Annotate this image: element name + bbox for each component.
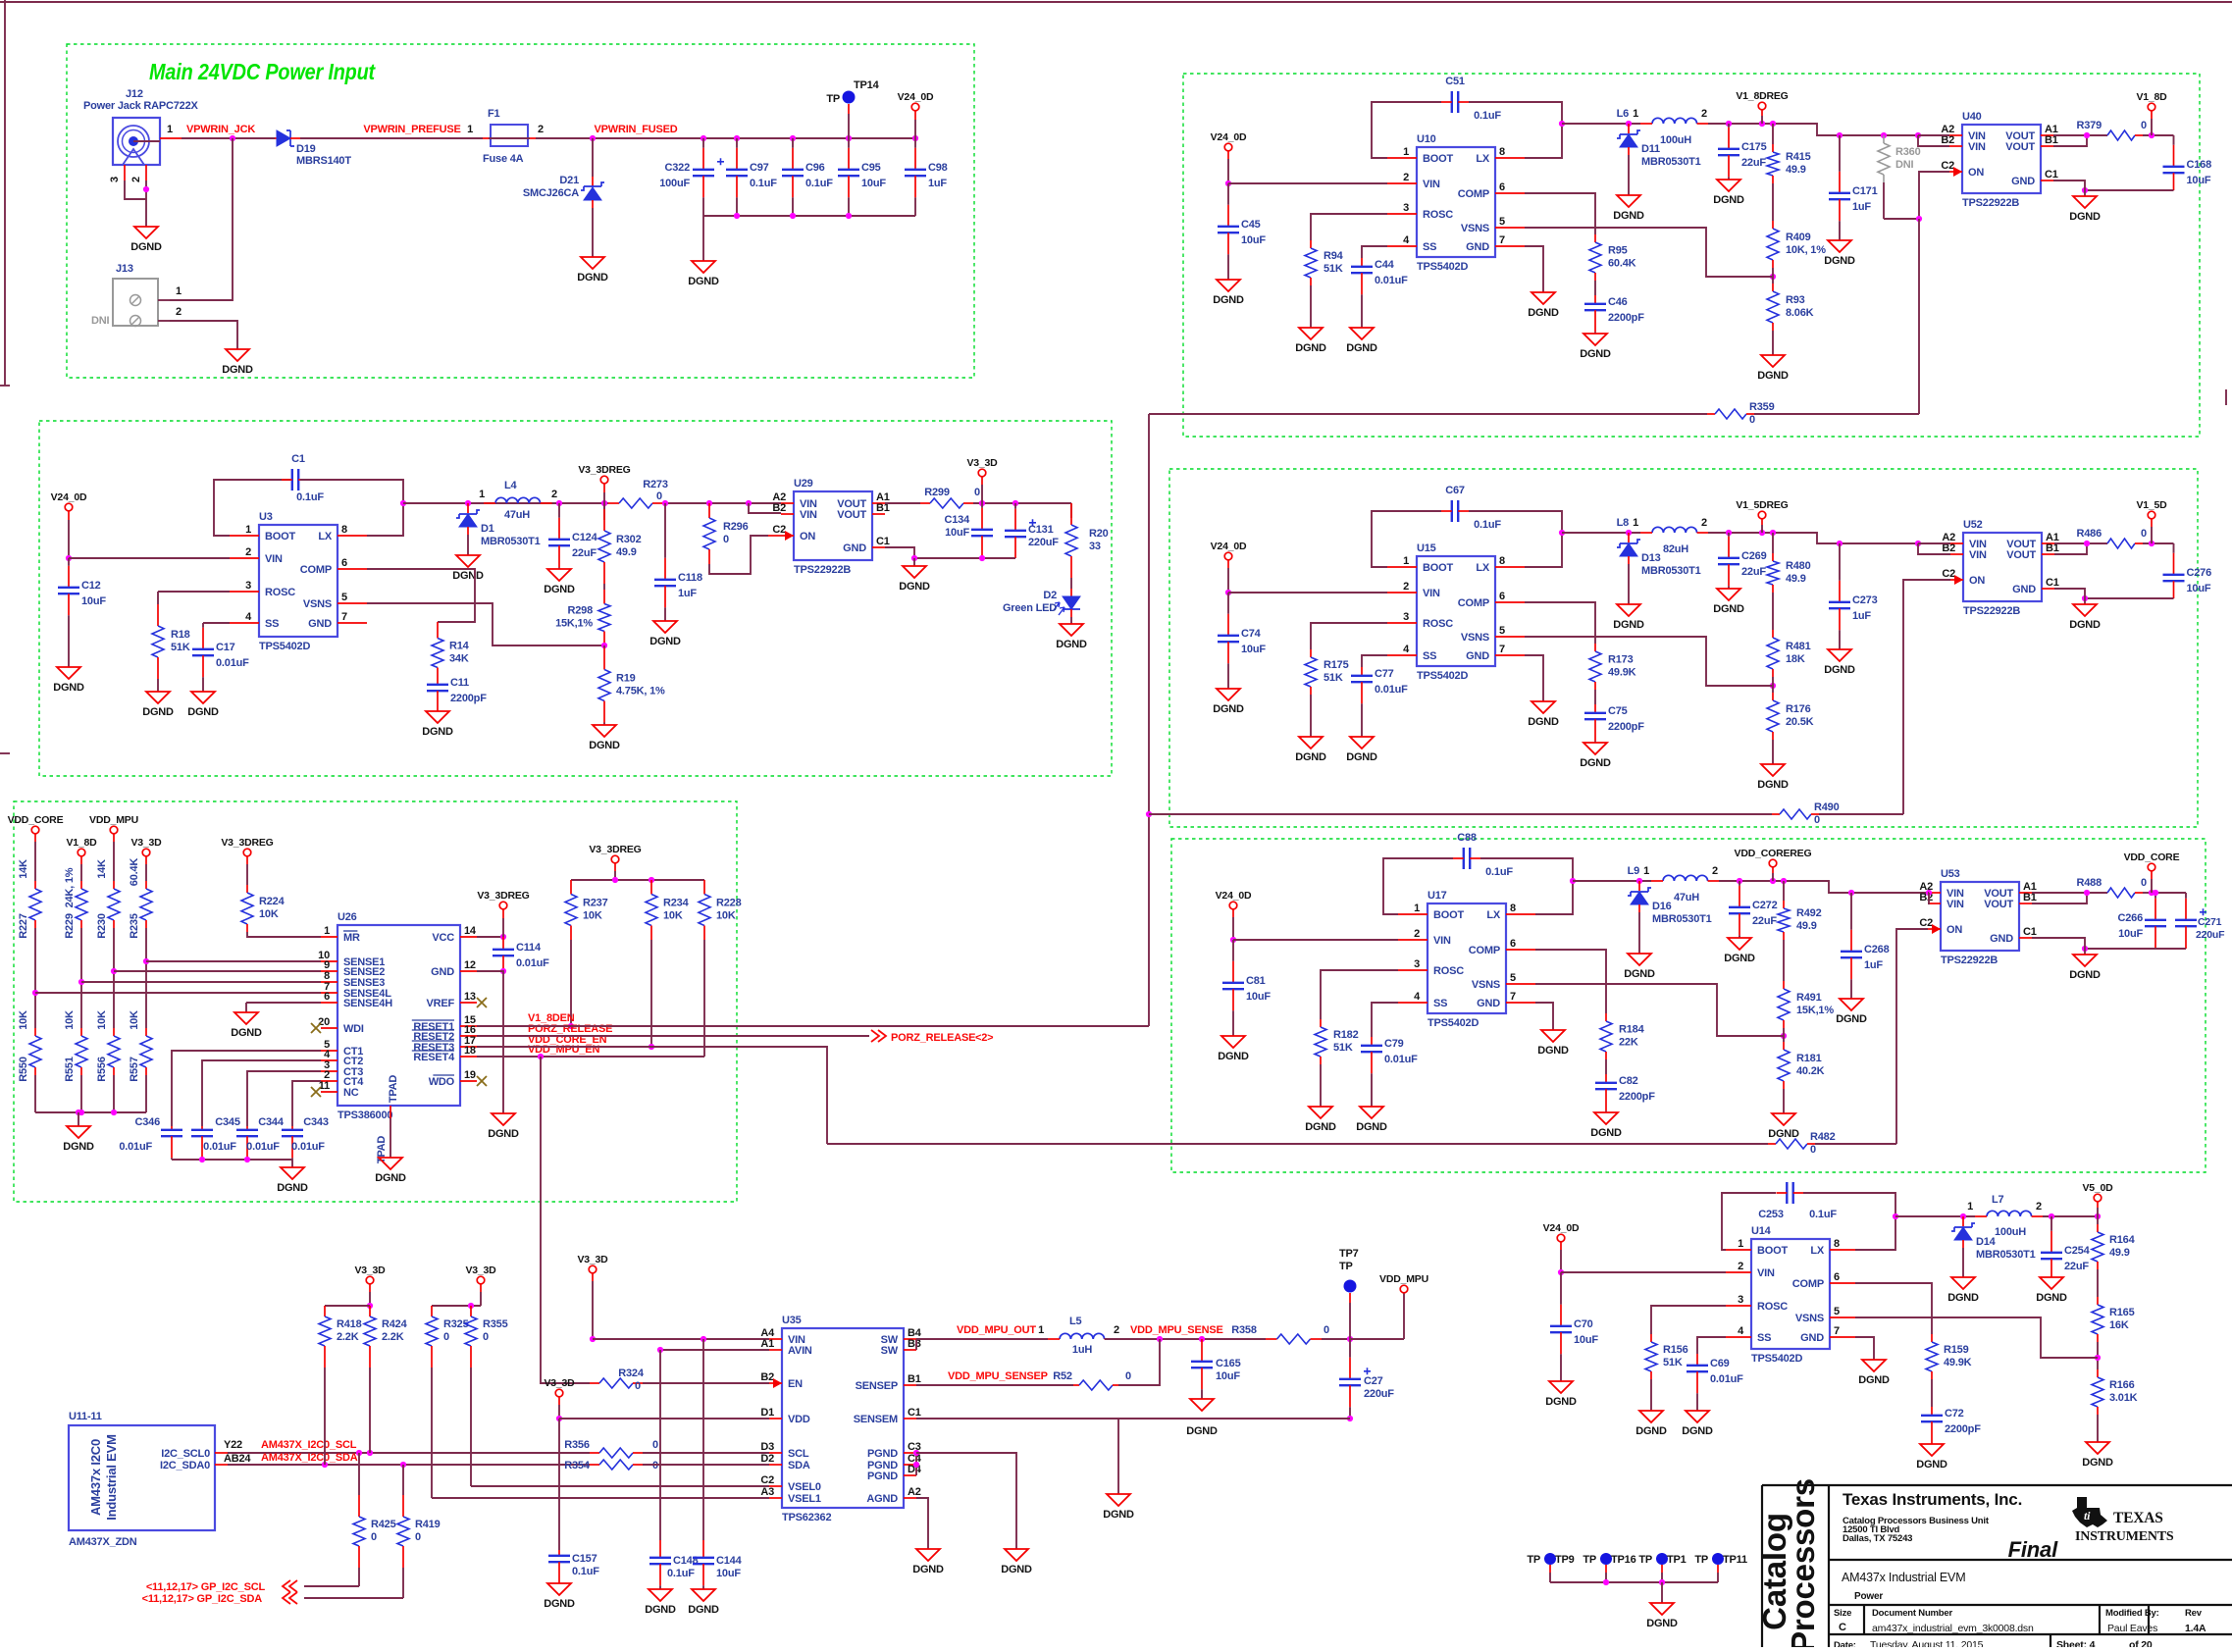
svg-text:TPS5402D: TPS5402D — [1751, 1353, 1802, 1365]
svg-text:DNI: DNI — [1895, 159, 1913, 171]
wire SENSE4L — [35, 992, 321, 994]
pin B2 VIN of U53 — [1928, 903, 1941, 904]
junction — [111, 1110, 117, 1115]
svg-text:V1_5DREG: V1_5DREG — [1736, 499, 1788, 511]
wire VSEL0 from R355 — [471, 1485, 769, 1487]
svg-text:0.01uF: 0.01uF — [516, 957, 549, 969]
wire filter rail — [703, 137, 915, 139]
pin 3 ROSC of U10 — [1387, 213, 1417, 215]
svg-text:R166: R166 — [2109, 1379, 2135, 1391]
ground — [916, 1549, 940, 1561]
wire pull-up rail — [571, 879, 704, 881]
svg-text:C1: C1 — [876, 536, 890, 547]
pin 2 of J13 — [158, 320, 170, 322]
svg-text:COMP: COMP — [1469, 945, 1500, 956]
wire BOOT loop U14 — [1722, 1193, 1776, 1250]
svg-text:Final: Final — [2008, 1537, 2058, 1562]
svg-text:0: 0 — [1810, 1144, 1816, 1156]
svg-text:TP: TP — [1583, 1554, 1596, 1566]
wire — [1931, 1379, 1933, 1407]
ground — [1628, 954, 1651, 965]
pin 4 CT2 of U26 — [321, 1059, 337, 1061]
svg-text:R273: R273 — [643, 479, 668, 490]
power flag V24_0D — [1224, 143, 1232, 151]
test point TP14 — [843, 91, 856, 104]
junction B2 drop — [1915, 132, 1921, 138]
pin 6 SENSE4H of U26 — [321, 1002, 337, 1004]
junction D21 tap — [590, 135, 596, 141]
power flag V24_0D — [1229, 902, 1237, 909]
svg-text:49.9: 49.9 — [2109, 1247, 2130, 1259]
wire VOUT A1 — [885, 502, 920, 504]
wire D14 ground — [1962, 1248, 1964, 1277]
svg-text:3: 3 — [1738, 1294, 1743, 1306]
svg-text:D1: D1 — [760, 1407, 774, 1419]
svg-text:BOOT: BOOT — [1433, 909, 1464, 921]
svg-text:SMCJ26CA: SMCJ26CA — [523, 187, 579, 199]
wire chain — [1783, 881, 1785, 901]
wire — [1320, 1064, 1322, 1107]
svg-text:10uF: 10uF — [2118, 928, 2143, 940]
svg-text:V3_3DREG: V3_3DREG — [221, 837, 273, 849]
TVS diode D21 — [592, 177, 594, 186]
wire to ground — [2084, 190, 2086, 196]
wire VCC net — [477, 936, 503, 938]
wire output ground bus — [2085, 597, 2174, 599]
capacitor C344 — [246, 1126, 248, 1130]
ground — [1299, 737, 1323, 749]
svg-text:C344: C344 — [258, 1116, 285, 1128]
junction LX node — [1559, 121, 1565, 127]
ground — [1360, 1107, 1383, 1118]
wire C148 column — [659, 1350, 661, 1540]
svg-text:R224: R224 — [259, 896, 285, 907]
ground — [1309, 1107, 1332, 1118]
svg-text:LX: LX — [1476, 153, 1490, 165]
resistor R480 — [1772, 553, 1774, 561]
pin 11 NC of U26 — [321, 1091, 337, 1093]
svg-text:DGND: DGND — [688, 1604, 719, 1616]
pin B2 VIN of U52 — [1950, 553, 1963, 555]
wire B2 — [1918, 135, 1949, 146]
ground — [1862, 1360, 1886, 1371]
pin 3 CT3 of U26 — [321, 1070, 337, 1072]
svg-text:R491: R491 — [1796, 992, 1822, 1004]
pin 4 SS of U3 — [230, 622, 259, 624]
wire COMP net — [1535, 950, 1606, 1013]
pin 1 BOOT of U3 — [230, 535, 259, 537]
svg-text:WDI: WDI — [343, 1023, 364, 1035]
svg-text:DGND: DGND — [488, 1128, 519, 1140]
test point TP1 — [1656, 1553, 1668, 1565]
wire SDA to U35 — [643, 1464, 769, 1466]
svg-text:100uF: 100uF — [659, 178, 690, 189]
pin B1 VOUT of U40 — [2041, 145, 2053, 147]
wire VPWRIN_FUSED — [536, 137, 703, 139]
svg-text:47uH: 47uH — [504, 509, 530, 521]
resistor R18 — [157, 592, 159, 604]
resistor R19 — [603, 645, 605, 648]
pin 8 SENSE3 of U26 — [321, 981, 337, 983]
svg-text:DGND: DGND — [452, 570, 484, 582]
capacitor C82 — [1605, 1074, 1607, 1083]
ground — [379, 1158, 402, 1169]
wire C144 column — [702, 1339, 704, 1540]
wire LX rail — [1562, 532, 1640, 534]
svg-text:DGND: DGND — [53, 682, 84, 694]
pin B1 VOUT of U52 — [2042, 553, 2054, 555]
wire V3_3D flag — [981, 477, 983, 485]
svg-text:C77: C77 — [1375, 668, 1394, 680]
wire — [2097, 1415, 2099, 1442]
svg-text:VDD_MPU_EN: VDD_MPU_EN — [528, 1044, 599, 1056]
resistor R550 — [34, 1028, 36, 1036]
svg-text:R556: R556 — [96, 1057, 108, 1082]
power flag V1_8D — [2148, 103, 2155, 111]
svg-text:7: 7 — [1510, 991, 1516, 1003]
junction TP7 — [1347, 1336, 1353, 1342]
wire VSNS U14 — [1855, 1317, 2098, 1358]
junction — [1837, 132, 1843, 138]
svg-text:SS: SS — [1757, 1332, 1771, 1344]
resistor R360 — [1883, 135, 1885, 143]
svg-text:33: 33 — [1089, 541, 1101, 552]
svg-text:0: 0 — [652, 1460, 658, 1471]
resistor R356 — [590, 1452, 599, 1454]
svg-text:MBRS140T: MBRS140T — [296, 155, 351, 167]
wire EN — [643, 1382, 769, 1384]
svg-text:U3: U3 — [259, 511, 273, 523]
resistor R273 — [608, 502, 619, 504]
wire — [113, 928, 115, 1028]
ground — [281, 1167, 304, 1179]
wire C1 GND — [2032, 938, 2085, 949]
wire VPWRIN_PREFUSE — [300, 137, 483, 139]
pin D3 SCL of U35 — [769, 1452, 782, 1454]
wire — [34, 928, 36, 1028]
svg-text:C17: C17 — [216, 642, 235, 653]
pin Y22 I2C_SCL0 of U11 — [215, 1452, 228, 1454]
pin A1 VOUT of U29 — [872, 502, 885, 504]
svg-text:VIN: VIN — [800, 509, 817, 521]
wire VOUT ground bus — [885, 547, 1015, 558]
svg-text:V3_3D: V3_3D — [544, 1377, 575, 1389]
svg-text:R482: R482 — [1810, 1131, 1836, 1143]
svg-text:2: 2 — [1701, 108, 1707, 120]
svg-text:60.4K: 60.4K — [129, 858, 140, 887]
svg-text:R184: R184 — [1619, 1024, 1645, 1036]
svg-text:0.01uF: 0.01uF — [1710, 1373, 1743, 1385]
wire R228 to VDD_MPU_EN — [703, 940, 705, 1057]
svg-text:GND: GND — [843, 542, 866, 554]
svg-text:VDD_MPU: VDD_MPU — [1379, 1273, 1428, 1285]
resistor R354 — [590, 1464, 599, 1466]
svg-text:1.4A: 1.4A — [2185, 1623, 2206, 1634]
wire flag stub — [1761, 116, 1763, 124]
wire R234 to VDD_CORE_EN — [650, 940, 652, 1047]
wire CT2 to C345 — [202, 1060, 321, 1126]
wire ROSC U14 — [1651, 1306, 1726, 1334]
ground — [1828, 240, 1851, 252]
svg-text:1uH: 1uH — [1072, 1344, 1092, 1356]
resistor R492 — [1783, 901, 1785, 908]
svg-text:GND: GND — [2012, 584, 2036, 595]
diode D13 — [1628, 533, 1630, 542]
resistor R175 — [1310, 649, 1312, 657]
wire ROSC net — [1321, 970, 1398, 1019]
pin A2 VIN of U40 — [1949, 134, 1962, 136]
wire — [113, 1075, 115, 1112]
pin 15 RESET1 of U26 — [460, 1025, 477, 1027]
svg-text:C: C — [1839, 1622, 1846, 1633]
wire BOOT loop right — [1469, 511, 1562, 567]
svg-text:ROSC: ROSC — [1423, 618, 1453, 630]
svg-text:R358: R358 — [1231, 1324, 1257, 1336]
ground — [1217, 689, 1240, 700]
svg-text:AM437X_I2C0_SCL: AM437X_I2C0_SCL — [261, 1439, 357, 1451]
sheet frame left border — [4, 0, 6, 386]
svg-text:51K: 51K — [171, 642, 190, 653]
junction — [2153, 890, 2158, 896]
junction — [1770, 530, 1776, 536]
svg-text:C27: C27 — [1364, 1375, 1383, 1387]
svg-text:R415: R415 — [1786, 151, 1811, 163]
resistor R176 — [1772, 693, 1774, 700]
pin C2 ON of U40 — [1949, 171, 1962, 173]
svg-text:SENSEM: SENSEM — [854, 1414, 898, 1425]
pin A2 VIN of U52 — [1950, 542, 1963, 544]
svg-text:VIN: VIN — [1433, 935, 1451, 947]
svg-text:C45: C45 — [1241, 219, 1261, 231]
svg-text:1: 1 — [167, 124, 173, 135]
wire VSNS net — [1525, 228, 1773, 277]
frame tick mark left — [0, 385, 10, 387]
svg-text:1uF: 1uF — [1864, 959, 1883, 971]
svg-text:TP16: TP16 — [1611, 1554, 1636, 1566]
ground — [1583, 334, 1607, 345]
svg-text:TP14: TP14 — [854, 79, 880, 91]
svg-text:F1: F1 — [488, 108, 500, 120]
junction — [734, 213, 740, 219]
wire — [2097, 1269, 2099, 1297]
svg-text:R324: R324 — [618, 1368, 645, 1379]
IC U11-11 AM437x outline — [69, 1425, 215, 1530]
junction VPWRIN_JCK — [230, 135, 235, 141]
ground — [1717, 589, 1740, 600]
svg-text:C254: C254 — [2064, 1245, 2091, 1257]
ground — [191, 692, 215, 703]
pin 5 VSNS of U10 — [1495, 227, 1525, 229]
power flag V24_0D — [1224, 552, 1232, 560]
wire enable rail right — [1754, 413, 1919, 415]
wire PGND pins join — [915, 1453, 917, 1475]
ground — [1639, 1411, 1663, 1422]
svg-text:TP: TP — [1527, 1554, 1540, 1566]
power flag V1_5DREG — [1758, 511, 1766, 519]
ground — [2073, 196, 2097, 208]
svg-text:BOOT: BOOT — [1757, 1245, 1788, 1257]
svg-text:1: 1 — [1967, 1201, 1973, 1213]
power flag V24_0D — [911, 103, 919, 111]
svg-text:SENSE4H: SENSE4H — [343, 998, 392, 1009]
wire — [1650, 1379, 1652, 1411]
capacitor C276 — [2173, 543, 2175, 553]
svg-text:1: 1 — [1643, 865, 1649, 877]
junction — [790, 213, 796, 219]
svg-text:<2>: <2> — [975, 1032, 993, 1044]
capacitor C75 — [1594, 704, 1596, 713]
wire ON net — [1919, 172, 1949, 219]
svg-text:J12: J12 — [126, 88, 143, 100]
svg-text:DGND: DGND — [375, 1172, 406, 1184]
ground — [1060, 624, 1083, 636]
svg-text:SS: SS — [1433, 998, 1447, 1009]
svg-text:0: 0 — [415, 1531, 421, 1543]
junction R296 — [706, 500, 712, 506]
junction — [78, 1110, 84, 1115]
svg-text:5: 5 — [1834, 1306, 1840, 1317]
pin B1 VOUT of U29 — [872, 513, 885, 515]
wire filter ground bus — [703, 215, 915, 217]
svg-text:1uF: 1uF — [1852, 610, 1871, 622]
ground — [1299, 328, 1323, 339]
wire chain to ground — [1783, 1089, 1785, 1113]
svg-text:2: 2 — [1712, 865, 1718, 877]
svg-text:<11,12,17> GP_I2C_SCL: <11,12,17> GP_I2C_SCL — [146, 1581, 266, 1593]
svg-text:2: 2 — [1114, 1324, 1119, 1336]
power flag V3_3D — [589, 1265, 597, 1273]
svg-text:V3_3D: V3_3D — [577, 1254, 608, 1265]
svg-text:C1: C1 — [908, 1407, 921, 1419]
junction — [2084, 541, 2090, 546]
wire SENSEP — [916, 1384, 1073, 1386]
capacitor C74 — [1227, 593, 1229, 614]
wire — [145, 928, 147, 1028]
junction — [1781, 878, 1787, 884]
svg-text:R20: R20 — [1089, 528, 1109, 540]
svg-text:13: 13 — [464, 991, 476, 1003]
svg-text:2200pF: 2200pF — [1945, 1423, 1981, 1435]
svg-text:8: 8 — [1499, 146, 1505, 158]
svg-text:C168: C168 — [2187, 159, 2212, 171]
junction — [1726, 121, 1732, 127]
svg-text:VSNS: VSNS — [303, 598, 332, 610]
svg-text:8.06K: 8.06K — [1786, 307, 1814, 319]
pin A2 AGND of U35 — [904, 1497, 916, 1499]
wire — [1594, 281, 1596, 295]
resistor R324 — [590, 1382, 599, 1384]
svg-text:14: 14 — [464, 925, 477, 937]
svg-text:C97: C97 — [750, 162, 769, 174]
junction R52 riser — [1157, 1336, 1163, 1342]
svg-text:U26: U26 — [337, 911, 357, 923]
wire to chevron — [304, 1585, 359, 1587]
svg-text:1uF: 1uF — [1852, 201, 1871, 213]
wire VOUT A1 — [2054, 542, 2107, 544]
power flag V5_0D — [2094, 1194, 2102, 1202]
svg-text:15K,1%: 15K,1% — [1796, 1005, 1834, 1016]
svg-text:TPS22922B: TPS22922B — [1941, 955, 1998, 966]
svg-text:DGND: DGND — [1947, 1292, 1979, 1304]
resistor R14 — [437, 622, 439, 639]
wire D1 to ground — [467, 535, 469, 555]
svg-text:DGND: DGND — [1624, 968, 1655, 980]
svg-text:C322: C322 — [665, 162, 691, 174]
junction VSNS — [601, 643, 607, 648]
power flag V3_3DREG — [499, 902, 507, 909]
group box supervisor — [14, 801, 737, 1202]
svg-text:V3_3DREG: V3_3DREG — [578, 464, 630, 476]
wire V3_3DREG to R224 — [246, 856, 248, 864]
svg-text:ON: ON — [1969, 575, 1985, 587]
off-page connector PORZ_RELEASE — [871, 1030, 886, 1042]
svg-text:DGND: DGND — [1103, 1509, 1134, 1521]
junction B2 drop — [1926, 890, 1932, 896]
svg-text:U15: U15 — [1417, 542, 1436, 554]
svg-text:C98: C98 — [928, 162, 948, 174]
svg-text:Modified By:: Modified By: — [2105, 1608, 2159, 1619]
svg-text:5: 5 — [1499, 625, 1505, 637]
svg-text:C343: C343 — [303, 1116, 329, 1128]
junction C131 — [1012, 500, 1018, 506]
svg-text:TP: TP — [1339, 1261, 1353, 1272]
resistor R482 — [1768, 1143, 1776, 1145]
ground — [1828, 649, 1851, 661]
capacitor C144 — [702, 1540, 704, 1558]
diode D11 — [1628, 124, 1630, 133]
svg-text:GND: GND — [431, 966, 454, 978]
wire GND pin to ground — [1535, 1003, 1553, 1030]
wire output ground bus — [2085, 189, 2174, 191]
group box V3_3D regulator — [39, 421, 1112, 776]
svg-text:B2: B2 — [772, 502, 786, 514]
diode D14 — [1962, 1216, 1964, 1226]
svg-text:0.01uF: 0.01uF — [246, 1141, 280, 1153]
svg-text:D19: D19 — [296, 143, 316, 155]
svg-text:C273: C273 — [1852, 594, 1878, 606]
svg-text:40.2K: 40.2K — [1796, 1065, 1825, 1077]
svg-text:GND: GND — [1477, 998, 1500, 1009]
svg-text:V3_3DREG: V3_3DREG — [477, 890, 529, 902]
svg-text:VREF: VREF — [426, 998, 454, 1009]
svg-text:SS: SS — [1423, 241, 1436, 253]
wire rail after inductor — [1708, 533, 1918, 543]
svg-text:NC: NC — [343, 1087, 359, 1099]
pin 2 VIN of U17 — [1398, 939, 1427, 941]
junction — [500, 934, 506, 940]
capacitor C67 — [1451, 500, 1453, 522]
junction — [468, 1303, 474, 1309]
resistor R355 — [470, 1306, 472, 1316]
resistor R551 — [80, 1028, 82, 1036]
svg-text:R298: R298 — [568, 605, 594, 617]
svg-text:D11: D11 — [1641, 143, 1660, 155]
svg-text:VOUT: VOUT — [1984, 899, 2013, 910]
title block outline — [1762, 1485, 2232, 1647]
svg-text:VIN: VIN — [1969, 549, 1987, 561]
svg-text:VIN: VIN — [1947, 899, 1964, 910]
svg-text:0.1uF: 0.1uF — [572, 1566, 599, 1577]
ground — [1617, 195, 1640, 207]
wire V24_0D to VIN — [1227, 560, 1229, 568]
svg-text:Power: Power — [1854, 1591, 1883, 1602]
svg-text:20.5K: 20.5K — [1786, 716, 1814, 728]
wire V24_0D to VIN U14 — [1560, 1250, 1562, 1272]
junction VSNS U14 — [2095, 1355, 2101, 1361]
diode D19 — [275, 137, 276, 139]
resistor R557 — [145, 1028, 147, 1036]
ground — [1350, 328, 1374, 339]
